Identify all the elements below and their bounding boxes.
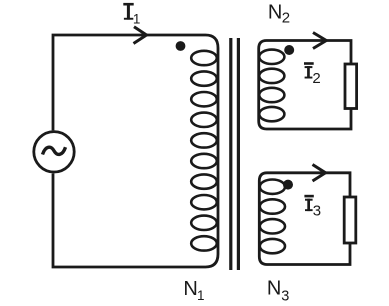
svg-text:2: 2 bbox=[282, 10, 290, 27]
svg-text:N: N bbox=[268, 2, 282, 24]
secondary winding N2 loop 4 bbox=[259, 107, 284, 121]
svg-text:2: 2 bbox=[312, 70, 320, 87]
arrow: I2 current direction bbox=[313, 33, 326, 49]
svg-text:N: N bbox=[183, 278, 197, 300]
label I3 (current phasor) bbox=[304, 195, 321, 220]
polarity dot: secondary N2 bbox=[284, 45, 294, 55]
svg-text:3: 3 bbox=[281, 289, 289, 305]
primary winding N1 loop 4 bbox=[191, 113, 217, 127]
primary winding N1 loop 6 bbox=[191, 154, 217, 168]
wire: secondary N3 loop bottom bbox=[267, 243, 350, 265]
polarity dot: secondary N3 bbox=[283, 180, 293, 190]
label N3 bbox=[267, 277, 289, 304]
polarity dot: primary bbox=[176, 41, 186, 51]
label N1 bbox=[183, 278, 204, 303]
secondary winding N2 loop 3 bbox=[259, 88, 284, 102]
primary winding N1 loop 5 bbox=[191, 133, 217, 147]
secondary winding N3 loop 4 bbox=[260, 239, 285, 253]
primary winding N1 loop 7 bbox=[191, 174, 217, 188]
svg-text:1: 1 bbox=[133, 11, 141, 26]
AC source V1 bbox=[34, 132, 74, 172]
wire: secondary N2 loop bottom bbox=[267, 109, 352, 130]
primary winding N1 loop 10 bbox=[191, 236, 217, 250]
primary winding N1 loop 1 bbox=[191, 51, 217, 65]
label N2 bbox=[268, 2, 290, 27]
svg-text:N: N bbox=[267, 277, 281, 299]
wire: primary loop left-bottom + bottom bbox=[53, 173, 206, 267]
svg-text:3: 3 bbox=[313, 203, 321, 220]
wire: primary loop left-top + top bbox=[53, 35, 206, 130]
secondary winding N3 loop 3 bbox=[260, 219, 285, 233]
resistor R2 bbox=[345, 64, 357, 109]
secondary winding N3 loop 2 bbox=[260, 199, 285, 213]
primary winding N1 loop 2 bbox=[191, 71, 217, 85]
svg-text:1: 1 bbox=[197, 288, 205, 303]
secondary winding N2 coil spine bbox=[259, 41, 267, 130]
label I1 (current phasor) bbox=[123, 3, 140, 27]
secondary winding N2 loop 2 bbox=[259, 69, 284, 83]
wire: secondary N3 loop top bbox=[267, 173, 350, 197]
label I2 (current phasor) bbox=[304, 62, 321, 87]
secondary winding N3 coil spine bbox=[259, 173, 267, 265]
primary winding N1 loop 3 bbox=[191, 92, 217, 106]
secondary winding N2 loop 1 bbox=[259, 50, 284, 64]
wire: secondary N2 loop top bbox=[267, 41, 352, 65]
arrow: I3 current direction bbox=[313, 165, 326, 182]
secondary winding N3 loop 1 bbox=[260, 180, 285, 194]
transformer core bbox=[231, 38, 239, 270]
arrow: I1 current direction bbox=[134, 27, 147, 44]
primary winding N1 loop 8 bbox=[191, 195, 217, 209]
resistor R3 bbox=[344, 197, 356, 243]
primary winding N1 coil spine bbox=[206, 35, 219, 267]
primary winding N1 loop 9 bbox=[191, 216, 217, 230]
